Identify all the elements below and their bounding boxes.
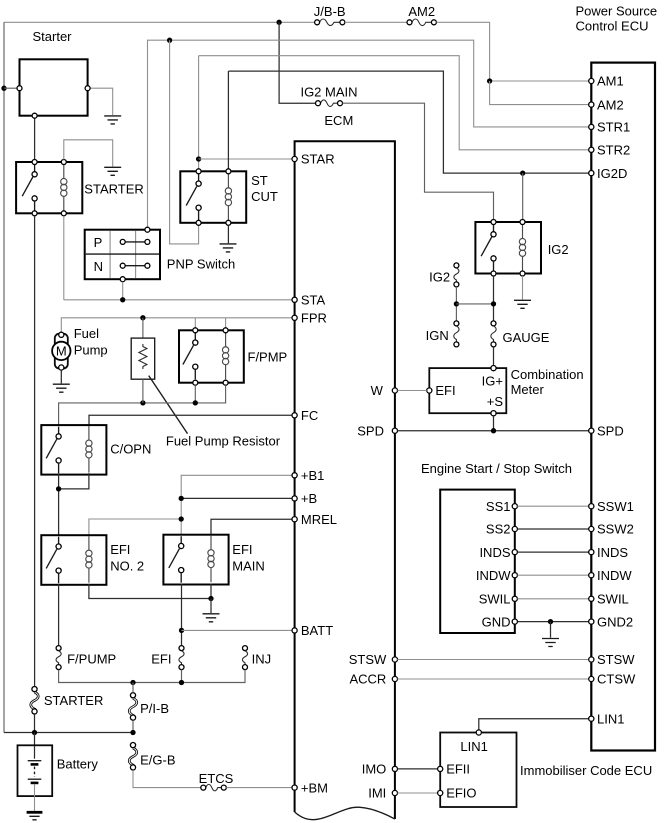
svg-text:INDW: INDW bbox=[476, 568, 511, 583]
ground IG2 relay bbox=[514, 300, 531, 308]
ground battery bbox=[27, 812, 43, 820]
junction +B bbox=[179, 496, 184, 501]
svg-text:IG2D: IG2D bbox=[597, 166, 627, 181]
wire fuel pump to ground bbox=[60, 370, 62, 383]
fuse GAUGE bbox=[491, 321, 550, 347]
fuse EFI bbox=[151, 646, 184, 670]
svg-text:NO. 2: NO. 2 bbox=[110, 558, 144, 573]
wire GND to ground bbox=[550, 622, 552, 638]
wire P/I-B fuse out bbox=[132, 720, 134, 732]
svg-text:IG2: IG2 bbox=[548, 242, 569, 257]
relay C/OPN bbox=[41, 425, 151, 475]
battery bbox=[18, 745, 99, 796]
wire EFI NO2 switch out bbox=[58, 584, 60, 646]
svg-text:CTSW: CTSW bbox=[597, 672, 636, 687]
wire +B1 net bbox=[181, 475, 292, 534]
pin MREL bbox=[292, 512, 337, 527]
pin STA bbox=[292, 293, 326, 308]
ground ST CUT bbox=[220, 244, 237, 252]
pin starter left bbox=[17, 86, 22, 91]
svg-text:Fuel Pump Resistor: Fuel Pump Resistor bbox=[166, 433, 281, 448]
starter motor bbox=[20, 29, 88, 116]
svg-text:SSW1: SSW1 bbox=[597, 499, 634, 514]
junction C/OPN out bbox=[56, 486, 61, 491]
svg-text:STARTER: STARTER bbox=[44, 693, 103, 708]
fuse E/G-B bbox=[129, 743, 175, 771]
wire SPD net bbox=[397, 430, 588, 432]
svg-text:C/OPN: C/OPN bbox=[110, 441, 151, 456]
wire INDS link bbox=[517, 551, 588, 553]
pin STR1 bbox=[589, 120, 631, 135]
combination meter bbox=[427, 366, 584, 416]
ECM box bbox=[295, 113, 395, 820]
wire BATT net bbox=[182, 629, 293, 631]
svg-text:ST: ST bbox=[251, 173, 268, 188]
wire INDW link bbox=[517, 574, 588, 576]
resistor fuel pump bbox=[131, 338, 281, 448]
svg-text:+BM: +BM bbox=[301, 780, 328, 795]
pin W bbox=[371, 383, 398, 398]
wire PNP to STA node bbox=[122, 282, 124, 300]
fuse J/B-B bbox=[314, 4, 346, 26]
junction starter feed bbox=[1, 86, 6, 91]
relay STARTER bbox=[16, 160, 144, 216]
wire IG2 MAIN fuse to IG2 relay bbox=[343, 103, 494, 219]
svg-text:INDS: INDS bbox=[597, 545, 628, 560]
svg-text:BATT: BATT bbox=[301, 623, 333, 638]
svg-text:EFIO: EFIO bbox=[446, 786, 476, 801]
svg-text:+B1: +B1 bbox=[301, 468, 325, 483]
svg-text:MAIN: MAIN bbox=[232, 558, 264, 573]
junction STAR branch bbox=[196, 156, 201, 161]
svg-text:Combination: Combination bbox=[511, 367, 584, 382]
wire ETCS to +BM bbox=[226, 787, 292, 789]
svg-text:STAR: STAR bbox=[301, 152, 335, 167]
relay IG2 bbox=[475, 220, 568, 277]
wire IG2D net bbox=[228, 71, 588, 173]
svg-text:Meter: Meter bbox=[511, 382, 545, 397]
wire +B net bbox=[181, 497, 292, 499]
wire STARTER relay coil to STA node bbox=[63, 216, 65, 300]
junction ST CUT return branch bbox=[167, 38, 172, 43]
wire F/PMP coil feed bbox=[225, 318, 227, 328]
svg-text:W: W bbox=[371, 383, 384, 398]
wire +S out bbox=[493, 416, 495, 431]
junction AM1/AM2 branch bbox=[487, 78, 492, 83]
wire IG2 switch out bbox=[493, 276, 495, 321]
wire EFI MAIN coil out bbox=[210, 584, 212, 599]
pin +B bbox=[292, 491, 317, 506]
junction GND bbox=[548, 619, 553, 624]
pin +BM bbox=[292, 780, 328, 795]
svg-text:AM1: AM1 bbox=[597, 74, 624, 89]
pin FC bbox=[292, 408, 318, 423]
wire battery bus top bbox=[4, 21, 315, 23]
svg-text:IMO: IMO bbox=[362, 762, 387, 777]
svg-text:Fuel: Fuel bbox=[74, 326, 99, 341]
svg-text:STR2: STR2 bbox=[597, 143, 630, 158]
svg-text:ACCR: ACCR bbox=[349, 672, 386, 687]
wire IMO net bbox=[397, 768, 437, 770]
junction relay coils ground bbox=[208, 596, 213, 601]
pin STSW bbox=[589, 652, 636, 667]
svg-text:EFI: EFI bbox=[110, 542, 130, 557]
wire SWIL link bbox=[517, 598, 588, 600]
fuse P/I-B bbox=[129, 693, 169, 721]
pin BATT bbox=[292, 623, 333, 638]
junction EFI fuse node bbox=[179, 680, 184, 685]
svg-text:Power Source: Power Source bbox=[576, 3, 658, 18]
wire to AM2 pin bbox=[490, 81, 589, 105]
wire resistor feed bbox=[142, 318, 144, 338]
fuse IG2 bbox=[429, 263, 459, 287]
junction E/G-B feed bbox=[130, 730, 135, 735]
svg-text:SWIL: SWIL bbox=[597, 592, 629, 607]
ground start stop switch bbox=[542, 639, 559, 647]
fuse F/PUMP bbox=[56, 646, 116, 670]
svg-text:IG2: IG2 bbox=[429, 269, 450, 284]
junction resistor out bbox=[140, 400, 145, 405]
pin FPR bbox=[292, 311, 327, 326]
svg-text:GND: GND bbox=[482, 614, 511, 629]
pin IG2D bbox=[589, 166, 628, 181]
wire GAUGE to meter bbox=[493, 347, 495, 366]
relay F/PMP bbox=[179, 328, 287, 385]
svg-text:J/B-B: J/B-B bbox=[314, 4, 346, 19]
svg-text:GAUGE: GAUGE bbox=[503, 330, 550, 345]
pin starter bottom bbox=[32, 113, 37, 118]
svg-text:M: M bbox=[56, 344, 67, 359]
svg-text:IG2 MAIN: IG2 MAIN bbox=[300, 84, 357, 99]
fuse ETCS bbox=[199, 771, 234, 791]
wire IG2 link bbox=[456, 303, 493, 305]
junction F/PMP switch node bbox=[193, 400, 198, 405]
wire ST CUT switch feed bbox=[198, 56, 200, 169]
svg-text:F/PUMP: F/PUMP bbox=[67, 651, 116, 666]
wire FC net bbox=[89, 415, 292, 425]
wire P/I-B fuse feed bbox=[132, 683, 134, 693]
wire EFI NO2 coil feed bbox=[89, 519, 181, 535]
pin starter right bbox=[85, 86, 90, 91]
svg-text:STARTER: STARTER bbox=[84, 182, 143, 197]
svg-text:AM2: AM2 bbox=[408, 4, 435, 19]
svg-text:F/PMP: F/PMP bbox=[248, 349, 288, 364]
svg-text:Control ECU: Control ECU bbox=[576, 18, 649, 33]
junction IG2 MAIN feed bbox=[276, 20, 281, 25]
svg-text:P/I-B: P/I-B bbox=[140, 701, 169, 716]
svg-text:SPD: SPD bbox=[597, 423, 624, 438]
svg-text:SS2: SS2 bbox=[486, 522, 511, 537]
junction EFI NO2 coil feed bbox=[179, 516, 184, 521]
svg-text:INDW: INDW bbox=[597, 568, 632, 583]
wire J/B-B to AM2 fuse bbox=[345, 21, 407, 23]
svg-text:EFI: EFI bbox=[232, 542, 252, 557]
svg-text:AM2: AM2 bbox=[597, 97, 624, 112]
switch PNP bbox=[85, 227, 236, 282]
svg-text:INJ: INJ bbox=[252, 651, 272, 666]
pin INDW bbox=[589, 568, 633, 583]
svg-text:IGN: IGN bbox=[426, 328, 449, 343]
wire FPR net bbox=[61, 318, 292, 333]
svg-text:LIN1: LIN1 bbox=[460, 739, 487, 754]
pin SPD bbox=[589, 423, 624, 438]
relay ST CUT bbox=[180, 169, 278, 226]
wire MREL net bbox=[211, 519, 292, 535]
pin SPD ecm bbox=[357, 423, 397, 438]
svg-text:SS1: SS1 bbox=[486, 499, 511, 514]
svg-text:+B: +B bbox=[301, 491, 317, 506]
wire EFI NO2 coil out bbox=[89, 584, 211, 599]
svg-text:Engine Start / Stop Switch: Engine Start / Stop Switch bbox=[421, 461, 572, 476]
wire F/PMP switch feed bbox=[194, 318, 196, 328]
wire STAR bbox=[199, 158, 293, 160]
junction IG2 fuse node bbox=[454, 301, 459, 306]
fuel pump M1 bbox=[52, 326, 108, 370]
junction SPD bbox=[491, 428, 496, 433]
svg-text:FC: FC bbox=[301, 408, 318, 423]
relay EFI NO2 bbox=[41, 535, 144, 585]
relay EFI MAIN bbox=[163, 535, 264, 585]
svg-text:PNP Switch: PNP Switch bbox=[167, 256, 235, 271]
junction PNP STA bbox=[120, 297, 125, 302]
junction BATT branch bbox=[179, 628, 184, 633]
svg-text:EFI: EFI bbox=[151, 651, 171, 666]
wire C/OPN coil out bbox=[59, 473, 89, 489]
svg-text:Starter: Starter bbox=[33, 29, 73, 44]
svg-text:GND2: GND2 bbox=[597, 614, 633, 629]
pin SWIL bbox=[589, 592, 629, 607]
svg-text:EFI: EFI bbox=[435, 383, 455, 398]
wire E/G-B fuse out bbox=[133, 770, 201, 788]
wire IG2 coil feed bbox=[522, 173, 524, 219]
wire ST CUT coil feed bbox=[227, 71, 229, 169]
pin STR2 bbox=[589, 143, 631, 158]
svg-text:N: N bbox=[94, 259, 103, 274]
pin STSW ecm bbox=[349, 652, 398, 667]
immobiliser code ECU bbox=[438, 730, 653, 807]
pin SSW2 bbox=[589, 522, 634, 537]
wire LIN1 net bbox=[479, 719, 589, 730]
wire IG2 MAIN feed bbox=[279, 22, 315, 103]
pin STAR bbox=[292, 152, 335, 167]
svg-text:E/G-B: E/G-B bbox=[140, 753, 175, 768]
wire SS1 to SSW1 bbox=[517, 505, 588, 507]
wire STARTER relay coil to ground bbox=[64, 140, 113, 167]
fuse IG2 MAIN bbox=[300, 84, 357, 106]
wire GND to GND2 bbox=[517, 621, 588, 623]
svg-text:SPD: SPD bbox=[357, 423, 384, 438]
wire CTSW net bbox=[397, 678, 588, 680]
svg-text:IMI: IMI bbox=[368, 786, 386, 801]
wire SS2 to SSW2 bbox=[517, 528, 588, 530]
fuse AM2 bbox=[407, 4, 436, 26]
wire ST CUT coil to ground bbox=[227, 225, 229, 243]
wire ST CUT switch return bbox=[170, 40, 199, 244]
ground fuel pump bbox=[53, 384, 70, 392]
svg-text:EFII: EFII bbox=[446, 762, 470, 777]
pin AM1 bbox=[589, 74, 624, 89]
wire battery to ground bbox=[34, 784, 36, 811]
wire battery feed bbox=[34, 733, 36, 746]
ground STARTER relay bbox=[104, 167, 121, 175]
wire starter to STARTER relay bbox=[34, 118, 36, 159]
svg-text:STR1: STR1 bbox=[597, 120, 630, 135]
svg-text:STSW: STSW bbox=[597, 652, 635, 667]
wire STARTER relay to STARTER fuse bbox=[34, 216, 36, 687]
junction gauge node bbox=[491, 301, 496, 306]
svg-text:Battery: Battery bbox=[57, 757, 99, 772]
wire W net bbox=[397, 390, 426, 392]
wire STR2 net bbox=[199, 56, 589, 150]
svg-text:STSW: STSW bbox=[349, 652, 387, 667]
wire F/PUMP fuse out bbox=[59, 670, 245, 683]
pin GND2 bbox=[589, 614, 633, 629]
pin AM2 bbox=[589, 97, 624, 112]
svg-text:ETCS: ETCS bbox=[199, 771, 234, 786]
svg-text:IG+: IG+ bbox=[482, 373, 503, 388]
pin IMO bbox=[362, 762, 398, 777]
pin LIN1 bbox=[589, 711, 625, 726]
wire STA net bbox=[64, 299, 292, 301]
wire EFI fuse out bbox=[181, 670, 183, 683]
svg-text:FPR: FPR bbox=[301, 311, 327, 326]
pin CTSW bbox=[589, 672, 636, 687]
wire F/PMP coil out bbox=[59, 385, 226, 425]
power source control ECU bbox=[576, 3, 658, 750]
svg-text:+S: +S bbox=[487, 394, 504, 409]
wire STR1 net bbox=[148, 40, 589, 227]
pin ACCR bbox=[349, 672, 397, 687]
svg-text:MREL: MREL bbox=[301, 512, 337, 527]
engine start stop switch bbox=[421, 461, 572, 633]
pin IMI bbox=[368, 786, 397, 801]
wire left bus vertical bbox=[3, 22, 5, 732]
wire IMI net bbox=[397, 792, 437, 794]
wire IG2 fuse out bbox=[455, 287, 457, 321]
junction P/I-B feed bbox=[130, 680, 135, 685]
wire STSW net bbox=[397, 659, 588, 661]
svg-text:SWIL: SWIL bbox=[479, 592, 511, 607]
svg-text:STA: STA bbox=[301, 293, 326, 308]
ground starter motor bbox=[104, 116, 121, 124]
pin +B1 bbox=[292, 468, 324, 483]
wire resistor out bbox=[142, 379, 144, 403]
wire AM2 fuse to AM1 pin bbox=[436, 22, 588, 81]
svg-text:LIN1: LIN1 bbox=[597, 711, 624, 726]
svg-text:P: P bbox=[94, 235, 103, 250]
wire battery bus bottom bbox=[4, 732, 133, 734]
junction fuel pump resistor feed bbox=[140, 315, 145, 320]
wire STARTER fuse out bbox=[34, 714, 36, 733]
wire EFI MAIN switch out bbox=[181, 584, 183, 646]
pin INDS bbox=[589, 545, 629, 560]
svg-text:ECM: ECM bbox=[324, 113, 353, 128]
svg-text:Immobiliser Code ECU: Immobiliser Code ECU bbox=[520, 763, 652, 778]
fuse STARTER bbox=[31, 687, 104, 715]
junction battery bbox=[32, 730, 37, 735]
wire C/OPN switch out bbox=[58, 473, 60, 535]
wire coils to ground bbox=[210, 599, 212, 614]
fuse INJ bbox=[242, 646, 271, 670]
pin SSW1 bbox=[589, 499, 634, 514]
wire F/PMP switch out bbox=[194, 385, 196, 403]
fuse IGN bbox=[426, 321, 459, 347]
junction IG2 coil branch bbox=[520, 170, 525, 175]
wire starter to ground bbox=[90, 88, 113, 115]
svg-text:CUT: CUT bbox=[251, 189, 278, 204]
wire IG2 coil to ground bbox=[522, 276, 524, 300]
svg-text:INDS: INDS bbox=[479, 545, 510, 560]
ground EFI relays bbox=[203, 614, 220, 622]
svg-text:SSW2: SSW2 bbox=[597, 522, 634, 537]
svg-text:Pump: Pump bbox=[74, 343, 108, 358]
wire starter feed bbox=[4, 87, 17, 89]
